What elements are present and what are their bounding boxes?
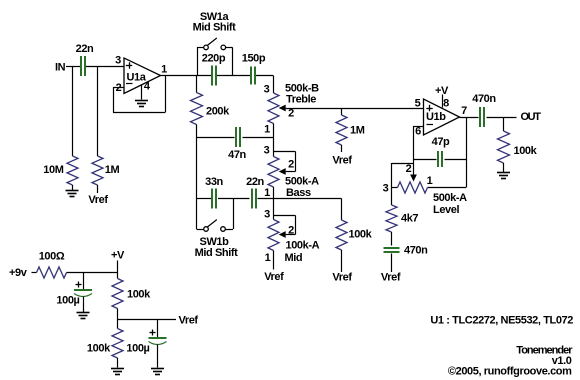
svg-text:8: 8 [443,98,449,110]
svg-text:U1b: U1b [426,111,446,123]
svg-text:150p: 150p [242,53,266,65]
svg-text:470n: 470n [404,245,428,257]
svg-text:100k: 100k [87,343,111,355]
svg-text:1M: 1M [105,164,120,176]
svg-text:47p: 47p [432,136,450,148]
svg-text:2: 2 [288,225,294,237]
svg-text:1: 1 [265,252,271,264]
svg-text:22n: 22n [76,43,94,55]
svg-text:100µ: 100µ [56,295,79,307]
svg-text:22n: 22n [246,176,264,188]
svg-text:3: 3 [383,183,389,195]
svg-text:470n: 470n [472,93,496,105]
svg-text:Vref: Vref [381,272,401,284]
svg-text:Bass: Bass [286,187,311,199]
svg-text:7: 7 [461,105,467,117]
svg-text:200k: 200k [206,106,230,118]
svg-text:2: 2 [288,159,294,171]
svg-text:3: 3 [264,84,270,96]
svg-text:100k-A: 100k-A [286,240,320,252]
svg-text:+V: +V [435,85,449,97]
svg-text:3: 3 [264,209,270,221]
svg-text:100k: 100k [514,145,538,157]
svg-text:100k: 100k [127,289,151,301]
svg-text:Mid Shift: Mid Shift [193,22,237,34]
svg-text:500k-A: 500k-A [285,176,319,188]
svg-text:5: 5 [415,98,421,110]
svg-text:OUT: OUT [521,111,542,123]
svg-text:Vref: Vref [332,155,352,167]
svg-text:Vref: Vref [264,271,284,283]
svg-text:U1 : TLC2272, NE5532, TL072: U1 : TLC2272, NE5532, TL072 [430,315,573,327]
svg-text:4k7: 4k7 [401,213,418,225]
svg-text:Level: Level [433,204,459,216]
svg-text:6: 6 [415,126,421,138]
svg-text:220p: 220p [202,53,226,65]
svg-text:10M: 10M [43,164,63,176]
svg-text:IN: IN [55,62,66,74]
svg-text:Vref: Vref [332,272,352,284]
svg-text:100Ω: 100Ω [39,251,65,263]
svg-text:Vref: Vref [179,315,199,327]
svg-text:47n: 47n [228,149,246,161]
svg-text:1M: 1M [350,125,365,137]
svg-text:500k-A: 500k-A [433,192,467,204]
svg-text:+9v: +9v [9,267,28,279]
svg-text:100µ: 100µ [126,343,149,355]
svg-text:33n: 33n [205,176,223,188]
svg-text:Mid Shift: Mid Shift [195,247,239,259]
svg-text:Treble: Treble [286,94,316,106]
svg-text:2: 2 [406,163,412,175]
svg-text:Vref: Vref [88,194,108,206]
svg-text:1: 1 [264,124,270,136]
svg-text:1: 1 [161,64,167,76]
svg-text:1: 1 [264,187,270,199]
svg-text:Mid: Mid [285,252,303,264]
svg-text:+V: +V [111,250,125,262]
svg-text:1: 1 [427,175,433,187]
svg-text:3: 3 [115,55,121,67]
svg-text:©2005, runoffgroove.com: ©2005, runoffgroove.com [448,366,572,378]
svg-text:3: 3 [264,145,270,157]
svg-text:100k: 100k [349,229,373,241]
svg-text:2: 2 [288,108,294,120]
